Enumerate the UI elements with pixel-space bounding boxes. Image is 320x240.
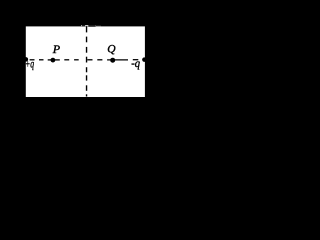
svg-text:-q: -q [131,58,140,70]
dashed axis [30,59,139,61]
svg-text:Q: Q [107,44,116,56]
figure panel [26,26,145,97]
panel top-edge notch [81,24,101,27]
center dashed line [86,26,88,96]
node P dot [51,58,56,63]
svg-text:P: P [52,42,61,56]
cropped text fragment B at top edge [88,25,95,27]
svg-text:+q: +q [25,59,34,71]
cropped text fragment C at top edge [96,24,101,27]
node Q dot [110,58,115,63]
charge +q dot [24,57,29,62]
cropped text fragment A at top edge [82,25,85,26]
charge -q dot [142,57,147,62]
